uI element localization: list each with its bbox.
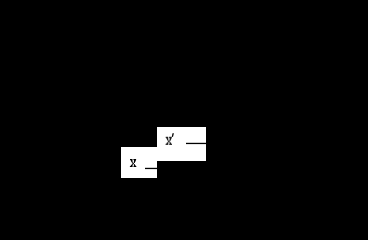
rule line inside box x <box>145 168 157 169</box>
label x of lower box <box>130 159 136 167</box>
box x' (upper white box) <box>157 127 206 161</box>
box x (lower white box) <box>121 147 157 178</box>
label x of upper box <box>166 137 172 145</box>
prime mark of x' <box>172 133 174 137</box>
rule line inside box x' <box>186 143 206 144</box>
